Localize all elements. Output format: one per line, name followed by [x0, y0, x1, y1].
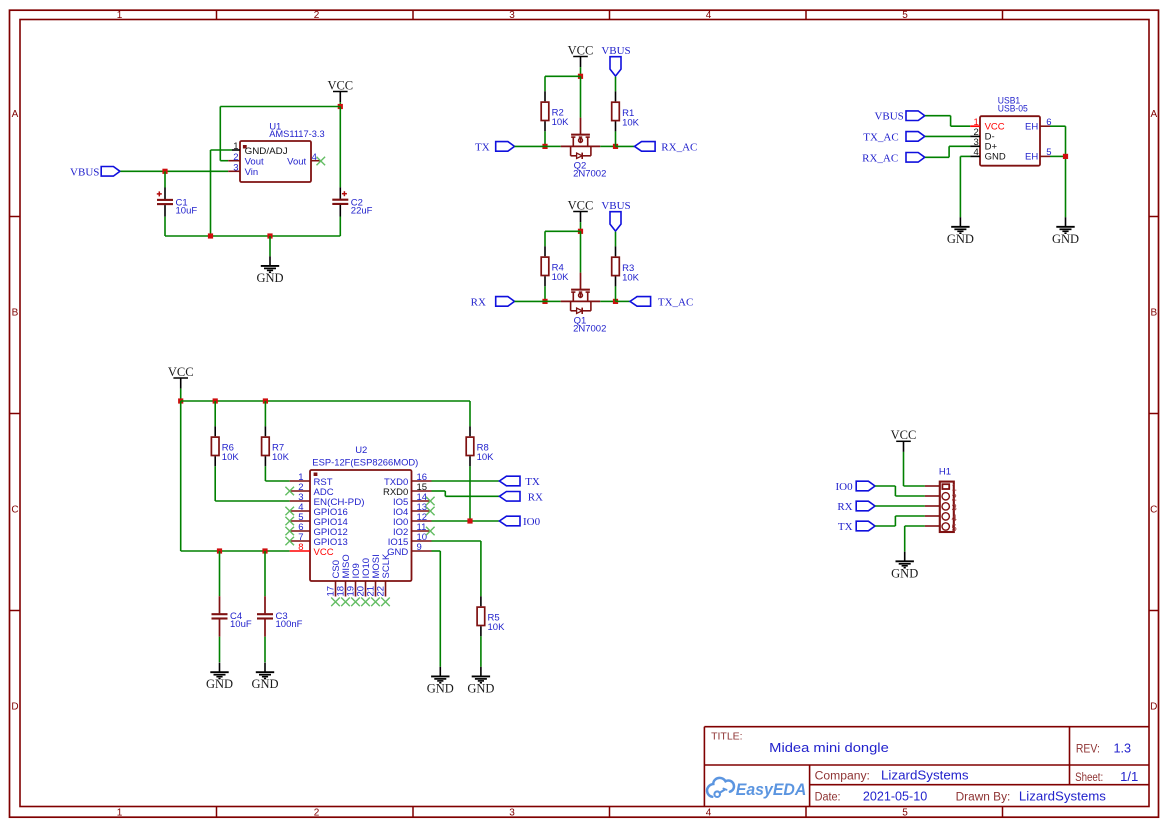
wire	[432, 480, 500, 482]
svg-text:H1: H1	[939, 467, 951, 478]
svg-text:2N7002: 2N7002	[573, 169, 606, 180]
port RX_AC	[635, 141, 698, 153]
svg-text:2: 2	[233, 152, 238, 163]
wire	[210, 150, 212, 236]
power flag VCC	[568, 198, 594, 222]
svg-text:3: 3	[233, 163, 238, 174]
svg-text:Vout: Vout	[287, 156, 306, 167]
wire	[904, 526, 906, 552]
svg-text:D: D	[11, 702, 18, 713]
svg-text:100nF: 100nF	[276, 619, 303, 630]
svg-text:IO0: IO0	[835, 481, 853, 493]
port VBUS	[70, 166, 120, 178]
svg-text:TX: TX	[475, 141, 490, 153]
svg-text:10K: 10K	[552, 117, 570, 128]
svg-text:IO0: IO0	[523, 516, 541, 528]
svg-text:VCC: VCC	[327, 78, 353, 92]
svg-text:10uF: 10uF	[176, 206, 198, 217]
wire	[544, 286, 546, 301]
ground	[1052, 217, 1079, 246]
port TX_AC	[863, 131, 925, 143]
resistor R7 10K	[262, 426, 290, 466]
svg-text:VCC: VCC	[314, 547, 334, 558]
wire	[220, 160, 228, 162]
port VBUS	[874, 111, 924, 123]
wire	[580, 67, 582, 76]
node gate/VCC	[578, 229, 583, 234]
regulator U1 AMS1117-3.3	[228, 122, 325, 182]
node VBUS/C1	[162, 169, 167, 174]
node source	[542, 299, 547, 304]
wire	[1050, 155, 1066, 157]
wire	[165, 235, 340, 237]
wire	[264, 637, 266, 663]
ground	[206, 663, 233, 692]
wire	[544, 231, 546, 246]
wire	[480, 541, 482, 596]
svg-text:EH: EH	[1025, 121, 1038, 132]
svg-text:VBUS: VBUS	[874, 111, 903, 123]
wire	[480, 636, 482, 667]
wire	[948, 146, 950, 157]
svg-text:10K: 10K	[272, 452, 290, 463]
svg-text:GND: GND	[427, 681, 454, 695]
svg-text:2: 2	[314, 807, 320, 818]
svg-text:Vin: Vin	[245, 167, 259, 178]
wire	[895, 495, 925, 497]
wire	[219, 551, 221, 596]
wire	[875, 505, 925, 507]
svg-text:U2: U2	[355, 445, 367, 456]
svg-text:GND: GND	[256, 271, 283, 285]
wire	[339, 102, 341, 106]
wire	[269, 236, 271, 256]
wire	[180, 389, 182, 401]
no-connect pin 17	[331, 598, 340, 607]
capacitor C4 10uF	[212, 596, 252, 637]
svg-text:TX: TX	[525, 476, 540, 488]
wire	[545, 230, 581, 232]
svg-text:EasyEDA: EasyEDA	[736, 780, 807, 799]
wire	[515, 145, 546, 147]
svg-text:D: D	[1150, 702, 1157, 713]
header H1	[925, 467, 957, 534]
ground	[467, 667, 494, 696]
wire	[219, 637, 221, 663]
port RX_AC	[862, 152, 925, 164]
resistor R2 10K	[541, 91, 569, 131]
wire	[432, 520, 500, 522]
wire	[339, 107, 341, 188]
wire	[432, 490, 446, 492]
port TX	[475, 141, 514, 153]
wire	[181, 550, 290, 552]
wire	[180, 401, 182, 551]
wire	[264, 466, 266, 481]
no-connect pin 20	[361, 598, 370, 607]
svg-text:TX_AC: TX_AC	[658, 296, 693, 308]
svg-text:RX: RX	[528, 491, 543, 503]
svg-text:SCLK: SCLK	[381, 553, 392, 578]
wire	[615, 286, 617, 301]
svg-text:10K: 10K	[477, 452, 495, 463]
svg-text:Midea mini dongle: Midea mini dongle	[769, 740, 889, 755]
wire	[1065, 126, 1067, 217]
wire	[214, 466, 216, 501]
svg-text:Date:: Date:	[815, 791, 841, 803]
wire	[264, 401, 266, 426]
wire	[600, 145, 615, 147]
svg-text:10K: 10K	[552, 272, 570, 283]
svg-text:LizardSystems: LizardSystems	[1019, 789, 1106, 803]
wire	[904, 485, 925, 487]
wire	[960, 155, 970, 157]
power flag VCC	[168, 365, 194, 389]
no-connect pin 4	[285, 507, 294, 516]
no-connect pin 4	[317, 157, 326, 166]
svg-text:VBUS: VBUS	[601, 200, 630, 212]
node drain	[613, 144, 618, 149]
svg-text:C: C	[11, 505, 18, 516]
svg-text:22uF: 22uF	[351, 206, 373, 217]
svg-text:VCC: VCC	[891, 428, 917, 442]
no-connect pin 5	[285, 517, 294, 526]
port IO0	[835, 481, 875, 493]
wire	[264, 551, 266, 596]
ground	[251, 663, 278, 692]
wire	[214, 401, 216, 426]
resistor R8 10K	[466, 426, 494, 466]
node source	[542, 144, 547, 149]
svg-text:C: C	[1150, 505, 1157, 516]
wire	[164, 171, 166, 187]
wire	[445, 495, 499, 497]
no-connect pin 2	[285, 487, 294, 496]
resistor R1 10K	[612, 91, 640, 131]
wire	[181, 400, 470, 402]
node drain	[613, 299, 618, 304]
svg-text:GND: GND	[467, 681, 494, 695]
svg-text:GND: GND	[206, 677, 233, 691]
node R7	[263, 398, 268, 403]
wire	[469, 466, 471, 521]
wire	[515, 300, 546, 302]
svg-text:8: 8	[298, 542, 303, 553]
wire	[905, 525, 925, 527]
capacitor C1 10uF	[157, 188, 198, 217]
svg-text:AMS1117-3.3: AMS1117-3.3	[269, 129, 325, 140]
wire gate	[580, 231, 582, 272]
port TX	[838, 521, 875, 533]
node VCC rail	[178, 398, 183, 403]
wire	[432, 540, 481, 542]
wire	[875, 525, 895, 527]
node R6	[213, 398, 218, 403]
wire	[580, 222, 582, 231]
wire	[1050, 125, 1066, 127]
wire	[951, 125, 971, 127]
node C3	[262, 548, 267, 553]
wire	[469, 401, 471, 426]
resistor R3 10K	[612, 246, 640, 286]
wire	[894, 486, 896, 496]
svg-text:GND: GND	[1052, 232, 1079, 246]
svg-text:VCC: VCC	[568, 43, 594, 57]
no-connect pin 11	[426, 527, 435, 536]
svg-text:1: 1	[117, 10, 123, 21]
svg-text:B: B	[12, 308, 19, 319]
svg-text:22: 22	[376, 586, 387, 597]
svg-text:GND: GND	[891, 566, 918, 580]
port RX	[499, 491, 543, 503]
svg-text:RX_AC: RX_AC	[661, 141, 697, 153]
resistor R5 10K	[477, 596, 505, 636]
svg-text:REV:: REV:	[1076, 743, 1100, 755]
svg-text:2021-05-10: 2021-05-10	[863, 789, 927, 803]
svg-text:A: A	[1150, 109, 1157, 120]
svg-text:9: 9	[417, 542, 422, 553]
wire	[925, 135, 970, 137]
port TX_AC	[630, 296, 693, 308]
svg-text:3: 3	[509, 10, 515, 21]
ground	[947, 217, 974, 246]
svg-text:3: 3	[509, 807, 515, 818]
wire	[215, 500, 290, 502]
wire	[959, 156, 961, 217]
svg-text:5: 5	[902, 807, 908, 818]
svg-text:1: 1	[117, 807, 123, 818]
wire	[616, 300, 631, 302]
wire gate	[580, 76, 582, 117]
svg-text:2: 2	[314, 10, 320, 21]
IC U2 ESP-12F(ESP8266MOD)	[290, 445, 432, 597]
svg-text:4: 4	[706, 807, 712, 818]
transistor Q1 2N7002	[561, 273, 607, 335]
svg-text:Vout: Vout	[245, 156, 264, 167]
wire	[219, 107, 221, 161]
svg-text:B: B	[1150, 308, 1157, 319]
resistor R4 10K	[541, 246, 569, 286]
svg-text:TX_AC: TX_AC	[863, 131, 898, 143]
resistor R6 10K	[211, 426, 239, 466]
svg-text:1/1: 1/1	[1120, 770, 1138, 784]
wire	[120, 170, 228, 172]
wire	[545, 300, 561, 302]
no-connect pin 19	[351, 598, 360, 607]
svg-text:RX_AC: RX_AC	[862, 152, 898, 164]
node GND rail	[208, 233, 213, 238]
svg-text:VCC: VCC	[168, 365, 194, 379]
wire	[615, 232, 617, 247]
svg-text:10uF: 10uF	[230, 619, 252, 630]
svg-text:4: 4	[974, 147, 979, 158]
svg-text:TITLE:: TITLE:	[711, 730, 743, 742]
wire	[339, 217, 341, 237]
svg-text:EH: EH	[1025, 152, 1038, 163]
svg-text:RX: RX	[471, 296, 486, 308]
wire	[949, 145, 970, 147]
svg-text:1: 1	[233, 141, 238, 152]
port RX	[837, 501, 875, 513]
wire	[220, 106, 340, 108]
capacitor C2 22uF	[332, 187, 372, 216]
svg-text:4: 4	[312, 152, 317, 163]
svg-text:1.3: 1.3	[1114, 741, 1132, 755]
svg-text:2N7002: 2N7002	[573, 324, 606, 335]
wire	[615, 131, 617, 146]
no-connect pin 21	[371, 598, 380, 607]
svg-text:GND: GND	[251, 677, 278, 691]
svg-text:GND: GND	[947, 232, 974, 246]
no-connect pin 6	[285, 527, 294, 536]
wire	[444, 491, 446, 496]
wire	[439, 551, 441, 667]
wire	[875, 485, 895, 487]
wire	[544, 131, 546, 146]
ground	[891, 552, 918, 581]
port TX	[499, 476, 540, 488]
wire	[544, 76, 546, 91]
wire	[615, 77, 617, 92]
svg-text:LizardSystems: LizardSystems	[881, 769, 969, 783]
node C4	[217, 548, 222, 553]
wire	[265, 480, 289, 482]
power flag VCC	[891, 428, 917, 452]
svg-text:RX: RX	[837, 501, 852, 513]
svg-text:VBUS: VBUS	[70, 166, 99, 178]
wire	[432, 550, 441, 552]
wire	[545, 75, 581, 77]
wire	[925, 156, 949, 158]
no-connect pin 18	[341, 598, 350, 607]
port VBUS	[601, 200, 630, 231]
svg-text:5: 5	[952, 523, 957, 534]
power flag VCC	[568, 43, 594, 67]
node VCC/C2	[338, 104, 343, 109]
wire	[895, 515, 925, 517]
svg-text:10K: 10K	[488, 622, 506, 633]
wire	[600, 300, 615, 302]
svg-text:USB-05: USB-05	[998, 104, 1028, 115]
svg-text:10K: 10K	[622, 272, 640, 283]
svg-text:Sheet:: Sheet:	[1075, 772, 1103, 784]
node gate/VCC	[578, 74, 583, 79]
no-connect pin 22	[381, 598, 390, 607]
svg-text:GND/ADJ: GND/ADJ	[245, 146, 288, 157]
node pin5/GND	[1063, 154, 1068, 159]
svg-text:Company:: Company:	[815, 771, 870, 783]
svg-text:Drawn By:: Drawn By:	[956, 791, 1011, 803]
no-connect pin 7	[285, 537, 294, 546]
port VBUS	[601, 45, 630, 76]
svg-text:5: 5	[902, 10, 908, 21]
node GND stub	[267, 233, 272, 238]
svg-text:4: 4	[706, 10, 712, 21]
wire	[894, 516, 896, 526]
svg-text:10K: 10K	[622, 117, 640, 128]
transistor Q2 2N7002	[561, 118, 607, 180]
wire	[925, 115, 951, 117]
svg-text:VCC: VCC	[568, 198, 594, 212]
svg-text:A: A	[12, 109, 19, 120]
port IO0	[499, 516, 540, 528]
wire	[211, 149, 233, 151]
wire	[545, 145, 561, 147]
ground	[256, 256, 283, 285]
wire	[903, 452, 905, 486]
power flag VCC	[327, 78, 353, 102]
no-connect pin 14	[426, 497, 435, 506]
connector USB1 USB-05	[970, 96, 1051, 166]
title block	[704, 727, 1149, 807]
svg-text:VBUS: VBUS	[601, 45, 630, 57]
capacitor C3 100nF	[257, 596, 303, 637]
no-connect pin 13	[426, 507, 435, 516]
wire	[616, 145, 635, 147]
port RX	[471, 296, 515, 308]
svg-text:ESP-12F(ESP8266MOD): ESP-12F(ESP8266MOD)	[312, 458, 418, 469]
EasyEDA logo	[707, 778, 806, 799]
wire	[950, 116, 952, 127]
svg-text:10K: 10K	[222, 452, 240, 463]
svg-text:TX: TX	[838, 521, 853, 533]
wire	[164, 217, 166, 236]
svg-text:GND: GND	[985, 152, 1006, 163]
node IO0/R8	[467, 518, 472, 523]
ground	[427, 667, 454, 696]
